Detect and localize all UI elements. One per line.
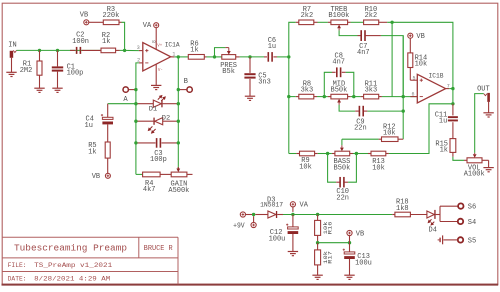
- svg-text:22n: 22n: [354, 125, 367, 133]
- svg-text:VB: VB: [356, 230, 364, 238]
- ground under C12: [288, 251, 298, 253]
- svg-text:7: 7: [447, 84, 450, 90]
- svg-text:100p: 100p: [67, 70, 84, 78]
- node R8 left junction: [287, 95, 290, 98]
- node C9 junction: [402, 109, 405, 112]
- wire R3 to input node: [120, 22, 125, 50]
- resistor R7: [296, 21, 299, 23]
- svg-text:8: 8: [152, 40, 158, 43]
- ground under R1: [34, 87, 44, 89]
- wire VB rail: [318, 242, 350, 244]
- svg-text:3: 3: [137, 45, 140, 51]
- capacitor C6: [264, 56, 267, 58]
- resistor R6: [188, 55, 204, 60]
- ground under C1: [52, 87, 62, 89]
- svg-text:B: B: [184, 78, 188, 86]
- svg-text:VA: VA: [143, 22, 152, 30]
- wire bass line: [289, 153, 297, 155]
- svg-text:3k3: 3k3: [365, 87, 378, 95]
- wire R13 to output node: [389, 104, 453, 154]
- svg-text:100u: 100u: [355, 259, 372, 267]
- pin 7 of IC1B: [446, 88, 450, 90]
- ground under C13: [344, 274, 354, 276]
- node feedback junction: [390, 21, 393, 24]
- svg-text:S4: S4: [468, 219, 476, 227]
- node input junction 2: [56, 49, 59, 52]
- svg-text:V+: V+: [157, 45, 162, 49]
- svg-text:DATE:: DATE:: [8, 276, 27, 283]
- diode D4: [427, 211, 434, 218]
- svg-text:1u: 1u: [85, 122, 93, 130]
- ground under VOL: [483, 167, 493, 169]
- resistor R1: [39, 50, 41, 61]
- wire feedback top: [387, 22, 453, 88]
- capacitor C9: [355, 110, 359, 112]
- svg-text:10k: 10k: [383, 130, 396, 138]
- supply VB node: [347, 230, 352, 235]
- potentiometer GAIN: [171, 172, 187, 177]
- pin 4 ground of IC1A: [155, 64, 157, 85]
- node output junction: [177, 55, 180, 58]
- diode D1: [136, 103, 153, 105]
- node pin7 junction: [451, 87, 454, 90]
- svg-text:VA: VA: [300, 202, 309, 210]
- svg-text:10k: 10k: [299, 163, 312, 171]
- svg-text:100n: 100n: [72, 38, 89, 46]
- op-amp IC1B: [417, 74, 445, 103]
- title block: [2, 236, 178, 238]
- svg-text:1k: 1k: [88, 149, 96, 157]
- ground under C5: [245, 95, 255, 97]
- wire pin2 to feedback rail: [136, 63, 139, 174]
- svg-text:1k: 1k: [440, 146, 448, 154]
- svg-text:IC1B: IC1B: [429, 72, 444, 79]
- wire feedback rail right: [177, 57, 179, 167]
- resistor R9: [296, 153, 299, 155]
- wire tone line: [288, 57, 290, 154]
- ground under IN: [11, 58, 13, 72]
- node pin6 junction: [402, 95, 405, 98]
- svg-text:2k2: 2k2: [365, 12, 378, 20]
- svg-text:B5k: B5k: [222, 68, 235, 76]
- connector S5: [458, 237, 463, 242]
- node C8 right junction: [352, 95, 355, 98]
- capacitor C4: [107, 104, 109, 118]
- node B: [187, 87, 192, 92]
- node R2-R3 junction: [123, 49, 126, 52]
- svg-text:IN: IN: [8, 41, 16, 49]
- node BASS left junction: [326, 152, 329, 155]
- node C8 left junction: [323, 95, 326, 98]
- svg-text:100u: 100u: [269, 236, 286, 244]
- capacitor C11: [452, 104, 454, 116]
- resistor R2: [101, 48, 116, 53]
- pin 1 of IC1A: [171, 56, 175, 58]
- capacitor C1: [57, 50, 59, 66]
- svg-text:B50k: B50k: [331, 87, 348, 95]
- resistor R8: [296, 96, 299, 98]
- svg-text:S6: S6: [468, 204, 476, 212]
- resistor R14: [408, 53, 413, 68]
- wire VOL wiper to OUT: [475, 94, 484, 153]
- resistor R15: [450, 139, 456, 153]
- svg-text:22n: 22n: [336, 194, 349, 202]
- svg-text:S5: S5: [468, 237, 476, 245]
- svg-text:R16: R16: [326, 222, 333, 235]
- capacitor C5: [249, 57, 251, 73]
- svg-text:100p: 100p: [150, 156, 167, 164]
- svg-text:D1: D1: [149, 106, 157, 113]
- svg-text:1k: 1k: [102, 38, 110, 46]
- svg-text:1k: 1k: [190, 46, 198, 54]
- svg-text:1u: 1u: [268, 43, 276, 51]
- svg-text:10k: 10k: [415, 61, 428, 69]
- wire pin1 output: [174, 56, 188, 58]
- svg-text:1N5817: 1N5817: [260, 202, 283, 209]
- capacitor C12: [292, 215, 294, 227]
- ground under OUT: [488, 102, 490, 113]
- battery symbol at S5: [443, 239, 457, 241]
- node C11 junction: [451, 102, 454, 105]
- svg-text:TS_PreAmp v1_2021: TS_PreAmp v1_2021: [34, 262, 112, 269]
- capacitor C8: [324, 72, 332, 96]
- ground under R17: [312, 274, 322, 276]
- svg-text:3k3: 3k3: [301, 87, 314, 95]
- capacitor C13: [349, 243, 351, 252]
- svg-text:1u: 1u: [439, 117, 447, 125]
- svg-text:FILE:: FILE:: [8, 262, 27, 269]
- pin 2 of IC1A: [139, 62, 143, 64]
- connector OUT: [484, 94, 487, 96]
- wire output to C11: [452, 89, 454, 104]
- svg-text:4n7: 4n7: [357, 49, 370, 57]
- svg-text:D2: D2: [162, 114, 170, 121]
- pin 5 of IC1B: [410, 79, 417, 81]
- node input junction 1: [38, 49, 41, 52]
- supply +9V arrow: [251, 222, 256, 227]
- node A: [123, 87, 128, 92]
- svg-text:VB: VB: [80, 11, 88, 19]
- svg-text:R17: R17: [326, 251, 333, 264]
- svg-text:2k2: 2k2: [301, 12, 314, 20]
- resistor R10: [364, 20, 379, 25]
- resistor R4: [136, 173, 143, 175]
- wire TREB to R10: [348, 21, 351, 23]
- wire R7 to TREB: [318, 21, 328, 23]
- frame bottom border: [2, 284, 499, 286]
- capacitor C7: [358, 35, 362, 37]
- svg-text:1k8: 1k8: [396, 205, 409, 213]
- capacitor C2: [70, 49, 75, 51]
- svg-text:4k7: 4k7: [143, 186, 156, 194]
- svg-text:10k: 10k: [372, 164, 385, 172]
- svg-text:2M2: 2M2: [20, 67, 33, 75]
- svg-text:VB: VB: [92, 173, 100, 181]
- op-amp IC1A: [143, 43, 171, 71]
- potentiometer BASS wiper wire: [341, 139, 343, 145]
- diode D2: [136, 120, 154, 122]
- wire main supply rail: [283, 214, 392, 216]
- wire C9 node to R12: [402, 36, 404, 140]
- node C6 junction: [287, 55, 290, 58]
- supply VA node: [290, 202, 295, 207]
- supply +9V pin: [240, 212, 245, 217]
- svg-text:+9V: +9V: [233, 223, 245, 231]
- wire R15 to VOL: [453, 157, 464, 161]
- svg-text:D4: D4: [429, 227, 437, 235]
- potentiometer PRES: [222, 55, 236, 60]
- wire R10 node to tone line: [391, 22, 393, 96]
- resistor R11: [361, 96, 364, 98]
- resistor R12: [342, 138, 379, 140]
- wire PRES to C6: [236, 56, 240, 58]
- wire D4 to S6 S4: [436, 214, 440, 216]
- capacitor C10: [328, 154, 337, 183]
- connector S4: [458, 219, 463, 224]
- resistor R17: [317, 243, 319, 250]
- potentiometer MID: [328, 96, 331, 98]
- wire input net: [17, 49, 102, 51]
- ground under IC1A: [151, 84, 161, 86]
- resistor R18: [392, 214, 395, 216]
- svg-text:B50k: B50k: [334, 164, 351, 172]
- node BASS right junction: [355, 152, 358, 155]
- potentiometer BASS: [332, 153, 335, 155]
- pin 6 of IC1B: [410, 96, 417, 98]
- svg-text:220k: 220k: [103, 12, 120, 20]
- svg-text:6: 6: [411, 92, 414, 98]
- svg-text:BRUCE R: BRUCE R: [144, 245, 173, 253]
- resistor R5: [105, 142, 110, 158]
- resistor R13: [368, 153, 371, 155]
- wire VB to R14: [409, 38, 411, 53]
- wire riser to R7: [289, 22, 296, 57]
- svg-text:VB: VB: [416, 33, 424, 41]
- resistor R3: [89, 21, 104, 23]
- wire R6 to PRES: [207, 56, 222, 58]
- connector IN: [10, 51, 14, 58]
- svg-text:4n7: 4n7: [332, 58, 345, 66]
- VOL right to ground: [482, 159, 489, 161]
- diode D3: [255, 214, 268, 216]
- svg-text:5: 5: [412, 75, 415, 81]
- wire node A branch: [108, 103, 136, 105]
- svg-text:Tubescreaming Preamp: Tubescreaming Preamp: [14, 243, 127, 254]
- svg-text:A500k: A500k: [168, 187, 189, 195]
- wire +9V to D3: [246, 214, 254, 216]
- capacitor C3: [136, 142, 156, 144]
- potentiometer VOL: [467, 158, 482, 163]
- resistor R16: [316, 213, 319, 216]
- svg-text:B100k: B100k: [328, 12, 349, 20]
- svg-text:3n3: 3n3: [258, 79, 271, 87]
- svg-text:V-: V-: [158, 69, 163, 73]
- svg-text:IC1A: IC1A: [165, 42, 180, 49]
- supply VB to R14: [408, 33, 413, 38]
- potentiometer TREB: [331, 20, 348, 25]
- node +9V junction: [252, 213, 255, 216]
- svg-text:OUT: OUT: [477, 85, 490, 93]
- pin 3 of IC1A: [139, 50, 143, 52]
- svg-text:8/28/2021 4:29 AM: 8/28/2021 4:29 AM: [34, 276, 110, 283]
- svg-text:A100k: A100k: [464, 171, 485, 179]
- connector S6: [458, 203, 463, 208]
